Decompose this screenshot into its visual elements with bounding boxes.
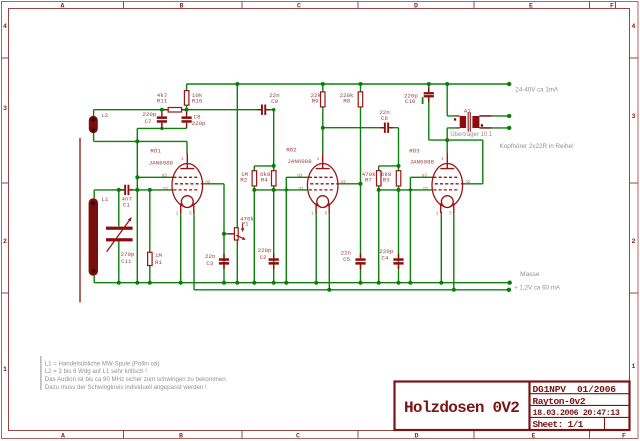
capacitor C6 [380, 123, 393, 133]
svg-text:g3: g3 [422, 175, 428, 179]
svg-text:B: B [180, 3, 184, 10]
svg-text:RÖ3: RÖ3 [409, 147, 420, 154]
svg-text:D: D [415, 433, 419, 440]
svg-text:1M: 1M [155, 252, 162, 259]
svg-text:+ 1,2V ca 60 mA: + 1,2V ca 60 mA [514, 284, 561, 291]
potentiometer P1 [228, 224, 246, 241]
tube RÖ2 pin numbers [297, 158, 346, 217]
wire C7/C8 bottom link [137, 123, 186, 128]
wire g2 RÖ3 [463, 140, 483, 184]
svg-text:C: C [297, 3, 301, 10]
svg-text:E: E [532, 433, 536, 440]
svg-text:RÖ2: RÖ2 [286, 147, 297, 154]
inductor L1 [89, 198, 98, 275]
wire stub near C10 [422, 97, 424, 104]
svg-text:Kopfhörer 2x22R in Reihe!: Kopfhörer 2x22R in Reihe! [500, 143, 574, 150]
inductor L2 [89, 116, 98, 133]
tube RÖ3 [432, 154, 463, 214]
svg-text:1: 1 [3, 366, 7, 373]
wire +1.2V filament rail [194, 289, 509, 291]
capacitor C2 [269, 254, 279, 269]
wire R8 screen branch [338, 84, 361, 283]
svg-text:R8: R8 [343, 98, 350, 105]
svg-text:A: A [61, 3, 65, 10]
svg-text:C10: C10 [405, 98, 416, 105]
capacitor C3 [219, 254, 229, 269]
svg-text:C3: C3 [206, 260, 213, 267]
wire g3 ground tie RÖ2 [286, 177, 308, 282]
resistor R1 [148, 252, 153, 265]
svg-text:R9: R9 [312, 98, 319, 105]
svg-text:C9: C9 [271, 98, 278, 105]
capacitor C1 [121, 185, 134, 195]
capacitor C4 [393, 254, 403, 269]
wire RÖ2 filament legs [316, 212, 329, 290]
svg-text:g1: g1 [299, 187, 305, 191]
svg-text:g3: g3 [162, 175, 168, 179]
svg-text:2: 2 [632, 238, 636, 245]
capacitor C10 [424, 88, 434, 103]
svg-text:g1: g1 [163, 187, 169, 191]
svg-text:C: C [296, 433, 300, 440]
resistor R2 [252, 171, 257, 186]
svg-text:R11: R11 [157, 97, 168, 104]
svg-text:RÖ1: RÖ1 [150, 148, 161, 155]
tube RÖ1 pin numbers [162, 158, 211, 217]
resistor R8 [358, 92, 363, 107]
capacitor C7 [157, 112, 167, 127]
svg-text:F: F [610, 3, 614, 10]
svg-text:E: E [529, 3, 533, 10]
svg-text:Übertrager 10.1: Übertrager 10.1 [450, 131, 493, 138]
resistor R3 [396, 171, 401, 186]
svg-text:A: A [61, 433, 65, 440]
svg-text:g2: g2 [465, 181, 471, 185]
svg-text:C7: C7 [145, 118, 152, 125]
svg-text:DG1NPV 01/2006: DG1NPV 01/2006 [533, 384, 617, 395]
svg-text:Masse: Masse [520, 271, 540, 278]
tube RÖ1 [172, 154, 203, 214]
svg-text:L2: L2 [101, 112, 108, 119]
svg-text:L1: L1 [102, 196, 109, 203]
resistor R9 [321, 92, 326, 107]
ferrite rod core line [79, 138, 81, 303]
wire +V top rail [187, 83, 510, 85]
svg-text:Holzdosen 0V2: Holzdosen 0V2 [404, 399, 519, 417]
svg-text:18.03.2006 20:47:13: 18.03.2006 20:47:13 [533, 408, 620, 418]
svg-text:g3: g3 [297, 175, 303, 179]
wire transformer secondary to headphones [480, 116, 510, 128]
svg-text:Rayton-0v2: Rayton-0v2 [533, 396, 586, 407]
svg-text:4: 4 [3, 23, 7, 30]
svg-text:JAN6088: JAN6088 [410, 158, 435, 165]
svg-text:C2: C2 [260, 254, 267, 261]
svg-text:3: 3 [632, 113, 636, 120]
wire grid rail (L2 top / R11 / R10 / C7 / C8 / C9) [94, 109, 274, 111]
wire C11 branch [118, 190, 120, 283]
note block margin bar [40, 356, 42, 390]
wire g3 ground tie RÖ3 [410, 177, 433, 282]
wire g2 RÖ1 to P1 wiper and C3 [203, 184, 235, 283]
wire R9 anode branch RÖ2 [322, 84, 324, 154]
svg-text:B: B [179, 433, 183, 440]
wire P1 vertical [236, 84, 238, 283]
wire tank / g1 net RÖ1 [94, 190, 173, 283]
svg-text:D: D [414, 3, 418, 10]
svg-text:R3: R3 [383, 177, 390, 184]
svg-text:R7: R7 [365, 177, 372, 184]
svg-text:4: 4 [632, 23, 636, 30]
wire R1 branch [149, 190, 151, 283]
wire C9 to R2/R4 grid network [254, 110, 273, 171]
tube RÖ2 [307, 154, 338, 214]
svg-text:R10: R10 [192, 97, 203, 104]
tube RÖ3 pin numbers [422, 158, 471, 217]
wire RÖ1 filament legs [181, 212, 194, 290]
svg-text:R2: R2 [240, 177, 247, 184]
svg-text:C6: C6 [381, 115, 388, 122]
wire R10 stubs [186, 84, 188, 110]
svg-text:3: 3 [3, 105, 7, 112]
wire g3 ground tie RÖ1 [137, 128, 173, 282]
svg-text:C4: C4 [381, 255, 388, 262]
title block frame [395, 382, 630, 431]
svg-text:Sheet: 1/1: Sheet: 1/1 [533, 419, 584, 430]
svg-text:C5: C5 [343, 256, 350, 263]
svg-text:R4: R4 [261, 177, 268, 184]
wire Masse ground rail [94, 282, 510, 284]
svg-text:R1: R1 [155, 259, 162, 266]
svg-text:g1: g1 [423, 187, 429, 191]
capacitor C8 [182, 112, 192, 128]
svg-text:24-40V ca 1mA: 24-40V ca 1mA [515, 87, 559, 94]
resistor R10 [184, 91, 189, 106]
resistor R7 [377, 171, 382, 186]
svg-text:L1 = Handelsübliche MW-Spule (: L1 = Handelsübliche MW-Spule (Pollin oä) [45, 360, 160, 367]
svg-text:JAN6088: JAN6088 [149, 159, 174, 166]
wire L2 bottom to anode RÖ1 [94, 110, 187, 154]
svg-text:220p: 220p [192, 120, 206, 127]
capacitor C9 [257, 105, 270, 115]
wire RÖ3 filament legs [441, 212, 454, 290]
wire C10 branch [428, 84, 430, 140]
svg-text:g2: g2 [341, 181, 347, 185]
wire g1 net RÖ2 [254, 186, 307, 283]
wire g1 net RÖ3 [379, 186, 433, 283]
svg-text:P1: P1 [242, 220, 249, 227]
svg-text:F: F [622, 433, 626, 440]
resistor R11 [164, 108, 186, 113]
svg-text:2: 2 [3, 238, 7, 245]
svg-text:C11: C11 [121, 258, 132, 265]
wire anode RÖ3 / transformer primary [429, 84, 483, 154]
capacitor C5 [355, 254, 365, 269]
svg-text:JAN6088: JAN6088 [287, 158, 312, 165]
svg-text:Das Audion ist bis ca 90 MHz s: Das Audion ist bis ca 90 MHz sicher zum … [45, 376, 228, 383]
svg-text:g2: g2 [205, 181, 211, 185]
svg-text:Dazu muss der Schwingkreis ind: Dazu muss der Schwingkreis individuell a… [45, 384, 207, 391]
svg-text:1: 1 [632, 363, 636, 370]
svg-text:C1: C1 [123, 202, 130, 209]
wire anode RÖ2 to C6 [323, 127, 399, 129]
resistor R4 [272, 171, 277, 186]
svg-text:L2 = 2 bis 6 Wdg auf L1 sehr k: L2 = 2 bis 6 Wdg auf L1 sehr kritisch ! [45, 368, 147, 375]
variable capacitor C11 [106, 217, 133, 252]
svg-text:A1: A1 [464, 107, 471, 114]
wire C6 to R7/R3 grid network [379, 128, 399, 171]
transformer A1 [454, 112, 492, 131]
